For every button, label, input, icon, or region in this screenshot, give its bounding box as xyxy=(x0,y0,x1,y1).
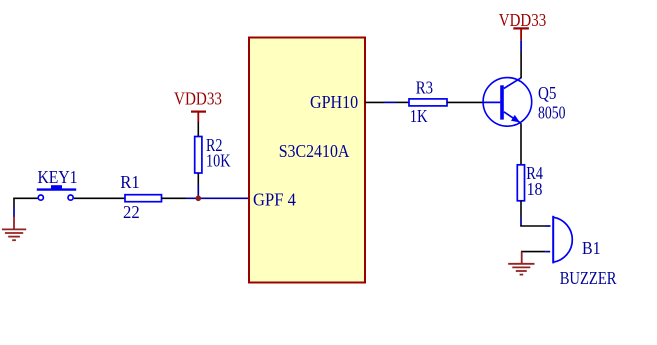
svg-text:GPH10: GPH10 xyxy=(310,92,358,112)
wire (GPH10 to R3, blue) xyxy=(384,101,397,103)
svg-text:R1: R1 xyxy=(120,172,140,192)
wire (buzzer pin 2 to ground, black) xyxy=(521,251,545,253)
ground GND (right, under buzzer) xyxy=(508,252,534,275)
svg-text:22: 22 xyxy=(123,202,140,222)
wire (left ground vertical, black part) xyxy=(13,198,15,207)
svg-text:VDD33: VDD33 xyxy=(499,10,546,30)
wire (R2 to node A, blue part) xyxy=(197,185,199,198)
wire (left ground vertical, blue part) xyxy=(13,207,15,217)
ground GND (left, under KEY1) xyxy=(2,216,26,240)
svg-text:18: 18 xyxy=(527,179,543,199)
wire (buzzer pin 2 tip, blue) xyxy=(545,251,550,253)
pushbutton KEY1 xyxy=(37,185,76,200)
svg-text:BUZZER: BUZZER xyxy=(560,268,617,288)
wire (GPH10 pin, black) xyxy=(365,101,384,103)
junction node A xyxy=(196,196,202,202)
wire (node A to chip GPF4, blue) xyxy=(186,197,249,199)
svg-text:S3C2410A: S3C2410A xyxy=(279,141,350,161)
svg-text:B1: B1 xyxy=(582,238,601,258)
wire (Q5 emitter to R4, black) xyxy=(520,123,522,165)
buzzer B1 xyxy=(553,216,572,264)
wire (VDD33 down, blue part) xyxy=(520,40,522,51)
wire (to buzzer pin 1, black) xyxy=(520,225,545,227)
power VDD33 (left) xyxy=(191,112,206,122)
wire (to Q5 collector, black) xyxy=(520,52,522,79)
wire (R4 down, blue part) xyxy=(520,218,522,227)
svg-text:10K: 10K xyxy=(206,151,231,171)
resistor R1 xyxy=(125,195,162,202)
svg-text:Q5: Q5 xyxy=(538,83,556,103)
wire (R3 left pin, black) xyxy=(397,101,410,103)
svg-text:8050: 8050 xyxy=(538,103,566,123)
wire (R3 to Q5 base, black) xyxy=(447,101,483,103)
power VDD33 (right) xyxy=(513,28,529,40)
svg-text:KEY1: KEY1 xyxy=(38,167,78,187)
wire (KEY1 pin 2 to R1) xyxy=(74,197,125,199)
wire (buzzer pin 1 tip, blue) xyxy=(546,225,551,227)
svg-text:1K: 1K xyxy=(410,106,428,126)
transistor Q5 xyxy=(483,78,532,127)
resistor R3 xyxy=(409,99,447,106)
resistor R4 xyxy=(517,165,524,201)
wire (R4 down, black) xyxy=(520,201,522,218)
svg-text:R3: R3 xyxy=(416,78,433,98)
svg-text:GPF 4: GPF 4 xyxy=(253,190,296,210)
resistor R2 xyxy=(195,137,202,174)
svg-text:VDD33: VDD33 xyxy=(174,89,222,109)
wire (VDD33 to R2, black) xyxy=(197,122,199,137)
wire (R1 to node A, black pin part) xyxy=(162,197,187,199)
wire (R2 to node A, black pin part) xyxy=(197,173,199,185)
IC U1 S3C2410A xyxy=(249,38,365,283)
wire (ground to KEY1 pin 1) xyxy=(13,197,37,199)
